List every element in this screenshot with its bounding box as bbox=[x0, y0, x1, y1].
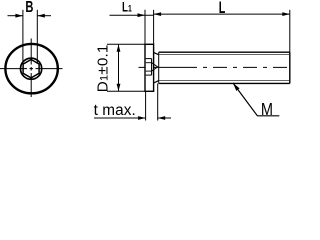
L extension line right bbox=[289, 10, 291, 52]
socket hidden line top bbox=[146, 58, 152, 60]
head outer circle bbox=[5, 44, 57, 93]
B dimension leader right bbox=[37, 15, 51, 17]
L1 extension line left bbox=[144, 10, 146, 45]
shank top edge bbox=[159, 51, 290, 53]
t dimension leader left bbox=[94, 117, 146, 119]
vertical centerline bbox=[30, 39, 32, 100]
L1 arrow (points right at x=145) bbox=[138, 13, 146, 17]
B dimension leader left bbox=[8, 15, 23, 17]
D1 arrow down bbox=[117, 84, 121, 92]
L dimension line bbox=[154, 13, 290, 15]
socket chamfer inner circle bbox=[21, 58, 42, 79]
svg-text:t max.: t max. bbox=[94, 102, 136, 119]
L1 leader bbox=[110, 14, 154, 16]
L arrow left (points left at x=153.6) bbox=[154, 12, 162, 16]
svg-text:L: L bbox=[219, 0, 226, 16]
thread minor dia bottom bbox=[159, 80, 290, 82]
B arrow left (points right at x=23.6) bbox=[15, 14, 23, 18]
M leader line bbox=[233, 83, 279, 116]
svg-text:M: M bbox=[261, 100, 273, 120]
fillet under head top bbox=[154, 53, 159, 55]
fillet under head bottom bbox=[154, 81, 159, 83]
socket hex flat line lower bbox=[146, 70, 152, 72]
shank bottom edge bbox=[159, 82, 290, 84]
t arrow left (points right at x=145.6) bbox=[138, 116, 146, 120]
socket floor line bbox=[151, 59, 153, 76]
D1 dimension line bbox=[118, 44, 120, 91]
B extension line right bbox=[36, 10, 38, 64]
socket hex flat line upper bbox=[146, 62, 152, 64]
thread minor dia top bbox=[159, 54, 290, 56]
D1 extension line bottom bbox=[107, 90, 145, 92]
L arrow right (points right at x=289.8) bbox=[282, 12, 290, 16]
t dimension leader right bbox=[158, 117, 171, 119]
hex socket bbox=[23, 60, 39, 78]
socket drill cone bbox=[152, 63, 158, 71]
svg-text:D1±0.1: D1±0.1 bbox=[95, 44, 112, 92]
L1/L shared extension line bbox=[153, 10, 155, 45]
horizontal centerline bbox=[0, 68, 65, 70]
B arrow right (points left at x=38) bbox=[37, 14, 45, 18]
M leader arrowhead bbox=[233, 83, 240, 91]
t arrow right (points left at x=157.7) bbox=[158, 116, 166, 120]
D1 arrow up bbox=[117, 44, 121, 52]
screw axis centerline bbox=[139, 66, 295, 68]
D1 extension line top bbox=[107, 43, 145, 45]
socket hidden line bottom bbox=[146, 74, 152, 76]
head rectangle bbox=[145, 44, 154, 91]
t extension line left bbox=[145, 91, 147, 120]
shank end face bbox=[289, 52, 291, 83]
thread runout line bbox=[158, 52, 160, 83]
svg-text:B: B bbox=[25, 0, 33, 15]
B extension line left bbox=[22, 10, 24, 64]
t extension line right bbox=[157, 83, 159, 120]
